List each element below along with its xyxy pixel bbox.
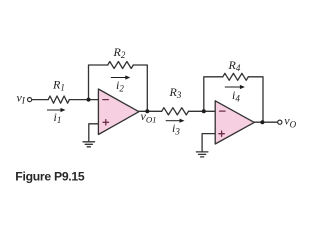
svg-text:Figure P9.15: Figure P9.15 bbox=[15, 170, 85, 184]
